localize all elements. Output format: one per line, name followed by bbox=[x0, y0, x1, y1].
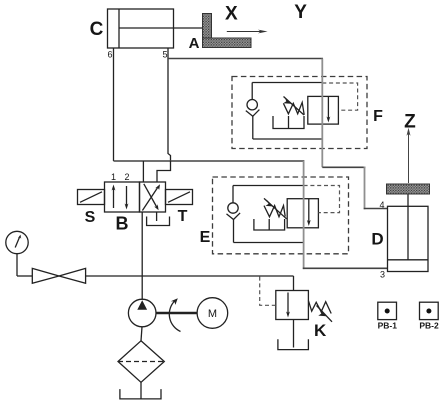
wire: long horizontal to E bbox=[114, 160, 305, 162]
tank (suction) bbox=[120, 389, 161, 399]
solenoid S box bbox=[78, 190, 105, 205]
cylinder C body bbox=[108, 9, 174, 48]
F spring bbox=[283, 102, 304, 114]
dashed block E bbox=[213, 177, 349, 254]
F pilot dashed line bbox=[322, 83, 357, 110]
svg-text:1: 1 bbox=[111, 172, 116, 182]
wire: port 6 line down bbox=[113, 48, 115, 161]
svg-text:Y: Y bbox=[294, 2, 307, 23]
svg-text:F: F bbox=[373, 108, 383, 125]
F check branch wires bbox=[252, 83, 322, 140]
E spring seat bbox=[254, 219, 285, 230]
cylinder D body bbox=[388, 206, 429, 271]
F check valve bbox=[246, 83, 260, 140]
push button PB-2 bbox=[420, 302, 439, 319]
wire: port 5 branch to F (horizontal) bbox=[168, 58, 323, 60]
svg-text:X: X bbox=[225, 3, 238, 24]
valve B left square down arrow bbox=[125, 186, 129, 210]
valve K tank bbox=[278, 339, 309, 349]
valve K inlet bbox=[293, 276, 295, 291]
wire: gauge line to K bbox=[86, 275, 294, 277]
svg-text:D: D bbox=[371, 230, 383, 249]
valve K adjust arrow bbox=[317, 306, 333, 322]
F valve square bbox=[308, 96, 339, 124]
wire: step to D port 4 bbox=[322, 166, 365, 168]
valve B crossed arrow 2 bbox=[144, 184, 159, 211]
F valve internal arrow bbox=[327, 96, 331, 122]
E valve square bbox=[287, 199, 318, 228]
svg-text:K: K bbox=[314, 321, 327, 340]
svg-text:6: 6 bbox=[107, 50, 112, 60]
wire: pump to filter bbox=[141, 327, 142, 341]
valve K pilot dashed bbox=[260, 276, 276, 305]
svg-text:M: M bbox=[208, 308, 217, 320]
F spring seat bbox=[273, 116, 304, 129]
svg-text:PB-2: PB-2 bbox=[419, 321, 439, 331]
wire: to D port 3 bbox=[303, 267, 388, 269]
valve K spring bbox=[308, 301, 331, 314]
svg-text:5: 5 bbox=[162, 50, 167, 60]
cylinder C rod bbox=[119, 27, 203, 29]
valve B tank symbol bbox=[147, 217, 170, 226]
pressure gauge bbox=[6, 231, 33, 276]
svg-text:T: T bbox=[178, 208, 188, 225]
motor shaft bbox=[156, 312, 197, 314]
valve B crossed arrow 1 bbox=[142, 184, 160, 210]
E check valve bbox=[227, 186, 241, 243]
X direction arrow bbox=[227, 30, 268, 34]
svg-text:PB-1: PB-1 bbox=[378, 321, 398, 331]
svg-text:3: 3 bbox=[380, 270, 385, 280]
motor M bbox=[197, 298, 228, 329]
E check branch wires bbox=[233, 186, 304, 243]
E spring adjust arrow bbox=[264, 198, 287, 218]
rotation arrow bbox=[169, 298, 180, 331]
svg-text:C: C bbox=[90, 19, 104, 40]
push button PB-1 bbox=[378, 302, 397, 319]
svg-text:S: S bbox=[85, 209, 96, 226]
solenoid T box bbox=[166, 190, 193, 205]
valve B left square up arrow bbox=[112, 185, 116, 209]
svg-text:E: E bbox=[200, 229, 211, 246]
svg-text:2: 2 bbox=[124, 172, 129, 182]
valve B body left square bbox=[105, 182, 140, 212]
shutoff valve bbox=[32, 268, 85, 283]
dashed block F bbox=[232, 77, 367, 149]
wire: P line valve B to pump bbox=[141, 212, 143, 300]
valve K outlet bbox=[293, 320, 295, 348]
wire: valve B port2 stepped connection bbox=[157, 161, 171, 182]
valve B body right square bbox=[140, 182, 166, 212]
E pilot dashed line bbox=[304, 186, 340, 213]
svg-text:Z: Z bbox=[404, 111, 416, 132]
valve K square bbox=[276, 291, 309, 320]
cylinder D rod bbox=[407, 194, 409, 260]
Z direction arrow bbox=[407, 128, 411, 183]
cylinder C piston bbox=[118, 9, 120, 48]
valve K internal arrow bbox=[286, 293, 290, 318]
load A hatched bracket bbox=[203, 14, 252, 48]
valve B tank stub bbox=[156, 212, 158, 221]
cylinder D piston bbox=[388, 259, 429, 261]
wire: main line through F bbox=[321, 59, 323, 168]
svg-text:B: B bbox=[116, 214, 129, 234]
filter bbox=[118, 341, 164, 383]
wire: port 5 line down with jog bbox=[168, 48, 171, 161]
pump bbox=[128, 299, 156, 327]
E valve internal arrow bbox=[307, 199, 311, 226]
load Z hatched block bbox=[387, 184, 430, 194]
E spring bbox=[264, 206, 285, 217]
svg-text:A: A bbox=[189, 35, 200, 52]
svg-text:4: 4 bbox=[379, 200, 384, 210]
wire: valve B top connection bbox=[142, 161, 144, 182]
wire: filter to tank bbox=[140, 382, 142, 399]
wire: main line through E bbox=[303, 161, 305, 269]
F spring adjust arrow bbox=[283, 97, 304, 116]
